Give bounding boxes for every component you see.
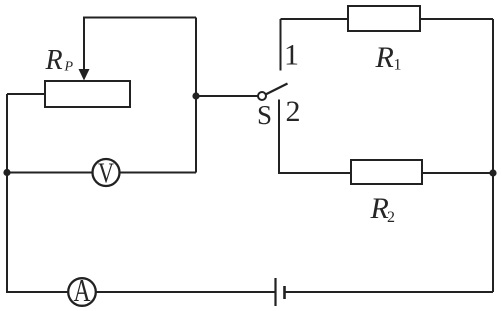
switch S blade [266,84,288,95]
wire top-left loop (wiper to mid node) [84,18,196,71]
svg-text:R: R [375,41,394,74]
rheostat RP body [45,81,130,107]
resistor R2 body [351,160,422,184]
svg-text:R: R [45,45,63,76]
svg-text:2: 2 [286,95,301,128]
svg-text:S: S [257,100,272,130]
ammeter A [68,278,96,306]
switch S pivot [258,92,266,100]
wire R2 branch [279,100,493,174]
svg-text:V: V [98,159,114,190]
svg-text:2: 2 [387,209,395,226]
node dot left rail [3,169,10,176]
svg-text:A: A [74,272,91,308]
wire RP left lead [7,93,45,95]
wire right rail [492,19,494,292]
rheostat RP wiper arrow [79,69,90,81]
wire bottom left of battery [7,291,276,293]
resistor R1 body [348,6,420,31]
switch contact 1 [280,19,282,71]
wire left rail [6,94,8,293]
battery long plate [274,278,276,306]
node dot right rail [489,169,496,176]
voltmeter V [93,159,120,186]
node dot A (mid) [192,92,199,99]
svg-text:1: 1 [394,57,402,74]
wire voltmeter branch [7,172,196,174]
wire node A to switch [196,95,259,97]
battery short plate [283,286,286,299]
svg-text:P: P [64,60,74,75]
svg-text:1: 1 [284,39,299,72]
svg-text:R: R [370,192,389,225]
wire mid vertical (node A down to voltmeter wire) [195,18,197,173]
wire top-right [281,18,494,20]
wire bottom right of battery [285,291,494,293]
